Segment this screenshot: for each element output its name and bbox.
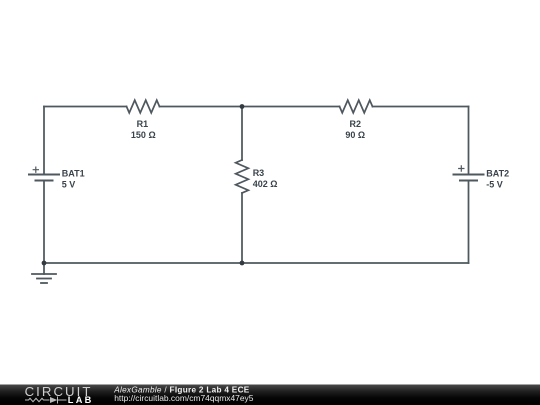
svg-text:5 V: 5 V [62,179,76,189]
wire: BAT1 to ground node [43,181,45,264]
battery BAT2 plus sign [459,166,464,171]
svg-text:http://circuitlab.com/cm74qqmx: http://circuitlab.com/cm74qqmx47ey5 [114,393,254,403]
ground: bar 3 [41,282,47,284]
ground: bar 1 [32,273,56,275]
svg-text:R1: R1 [137,119,149,129]
svg-text:150 Ω: 150 Ω [131,130,156,140]
resistor R1 [127,100,160,113]
wire: bottom (ground node to bottom-right corner) [44,262,469,264]
wire: node A to R2 [242,106,340,108]
footer bar [0,385,540,405]
svg-text:BAT2: BAT2 [486,168,509,178]
svg-text:R3: R3 [253,168,265,178]
resistor R3 [236,160,249,193]
ground: stem [43,263,45,274]
svg-text:R2: R2 [350,119,362,129]
node: bottom middle junction [240,261,245,266]
battery BAT1 plus sign [33,167,38,172]
wire: R2 to right corner [373,106,469,108]
svg-text:402 Ω: 402 Ω [253,179,278,189]
CircuitLab logo: mini circuit (wire + resistor + diode) [25,397,67,404]
wire: node A down to R3 [241,107,243,161]
wire: left vertical (corner to BAT1 top) [43,107,45,175]
node: ground junction [42,261,47,266]
battery BAT1 plate short (-) [36,180,53,182]
wire: BAT2 to bottom-right corner [468,181,470,264]
CircuitLab logo: diode triangle [50,397,57,403]
svg-text:90 Ω: 90 Ω [345,130,365,140]
node A (top junction) [240,104,245,109]
battery BAT2 plate long (+) [454,174,484,176]
svg-text:BAT1: BAT1 [62,168,85,178]
wire: R3 to bottom node [241,193,243,263]
resistor R2 [340,100,373,113]
battery BAT2 plate short (-) [460,180,477,182]
svg-text:-5 V: -5 V [486,179,503,189]
wire: top segment left corner to R1 [44,106,127,108]
wire: right vertical top (corner to BAT2) [468,107,470,175]
battery BAT1 plate long (+) [29,174,59,176]
svg-text:LAB: LAB [68,395,94,405]
ground: bar 2 [37,278,51,280]
wire: R1 to node A [160,106,243,108]
